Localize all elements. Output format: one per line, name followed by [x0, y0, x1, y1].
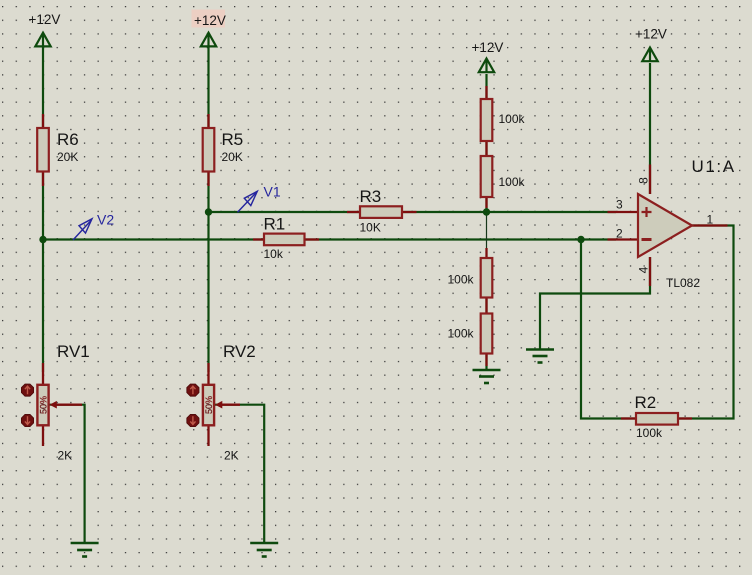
svg-text:3: 3	[616, 198, 623, 212]
resistor R6	[37, 128, 49, 172]
potentiometer RV2 down button	[187, 414, 199, 426]
svg-text:+12V: +12V	[472, 40, 504, 55]
power symbol +12V (second, R5 rail)	[201, 33, 216, 47]
svg-text:20K: 20K	[222, 150, 243, 164]
node dot: V2 net at R6/RV1 column	[39, 236, 46, 243]
wire: +12V rail down the 100k divider chain	[485, 74, 487, 212]
resistor R3	[360, 206, 402, 218]
resistor 100k (fourth)	[481, 314, 493, 354]
svg-text:R3: R3	[360, 187, 382, 206]
potentiometer RV1 up button	[21, 384, 33, 396]
svg-text:8: 8	[637, 177, 651, 184]
resistor 100k (top of chain)	[481, 99, 493, 141]
node dot: inverting input / feedback tee	[577, 236, 584, 243]
svg-text:+12V: +12V	[29, 12, 61, 27]
resistor R1	[264, 234, 305, 246]
wire: op-amp pin 4 to ground	[540, 257, 650, 349]
pin: 100k chain leads	[485, 86, 487, 366]
ground (100k chain bottom)	[473, 370, 501, 383]
pin: RV2 top lead	[207, 363, 209, 385]
resistor R2	[636, 413, 678, 425]
pin: RV2 bottom lead (unconnected)	[207, 426, 209, 447]
svg-text:V2: V2	[97, 212, 114, 228]
svg-text:100k: 100k	[448, 327, 475, 341]
pin: R3 leads	[347, 211, 417, 213]
svg-text:50%: 50%	[204, 396, 214, 414]
pin: RV1 bottom lead (unconnected)	[42, 426, 44, 447]
svg-text:100k: 100k	[499, 112, 526, 126]
ground (RV2 wiper)	[250, 543, 278, 557]
potentiometer RV2 wiper arrow	[215, 401, 222, 409]
node dot: divider mid-tap on V1 net	[483, 208, 490, 215]
pin: R1 leads	[253, 238, 319, 240]
pin: R2 leads	[621, 417, 692, 419]
pin: RV2 wiper lead	[222, 404, 241, 406]
svg-text:50%: 50%	[39, 396, 49, 414]
svg-text:R6: R6	[57, 130, 79, 149]
svg-text:10k: 10k	[264, 247, 284, 261]
potentiometer RV1 body	[37, 385, 48, 426]
wire: V1 net horizontal through R3 to op-amp pin 3	[209, 211, 617, 213]
voltage probe V2	[73, 219, 92, 240]
svg-text:R2: R2	[635, 393, 657, 412]
pin: op-amp pin 4 stub	[649, 257, 651, 286]
wire: divider lower half to ground	[485, 258, 487, 370]
ground (RV1 wiper)	[71, 543, 99, 557]
svg-text:100k: 100k	[499, 175, 526, 189]
svg-text:RV1: RV1	[57, 342, 90, 361]
svg-text:R5: R5	[222, 130, 244, 149]
selection highlight behind +12V label	[192, 10, 226, 28]
svg-text:1: 1	[707, 213, 714, 227]
svg-text:20K: 20K	[57, 150, 78, 164]
svg-text:R1: R1	[264, 215, 286, 234]
svg-text:2K: 2K	[58, 449, 73, 463]
op-amp U1:A	[638, 194, 692, 257]
voltage probe V1	[238, 191, 258, 212]
wire: op-amp output pin 1 to feedback R2 right	[678, 226, 734, 419]
potentiometer RV1 down button	[21, 414, 33, 426]
svg-text:2: 2	[616, 227, 623, 241]
resistor 100k (third)	[481, 258, 493, 298]
node dot: V1 net at R5/RV2 column	[205, 208, 212, 215]
svg-text:V1: V1	[264, 184, 281, 200]
pin: op-amp pin 8 stub	[649, 165, 651, 195]
pin: op-amp pin 1 stub	[692, 224, 728, 226]
power symbol +12V (right, op-amp pin 8)	[642, 48, 657, 62]
potentiometer RV2 body	[203, 385, 214, 426]
pin: R6 leads	[42, 114, 44, 186]
pin: RV1 top lead	[42, 363, 44, 385]
svg-text:+12V: +12V	[194, 13, 226, 28]
svg-text:100k: 100k	[636, 426, 663, 440]
svg-text:4: 4	[637, 266, 651, 273]
wire: V2 net horizontal to op-amp pin 2	[43, 238, 616, 240]
wire: +12V to op-amp pin 8	[649, 63, 651, 194]
svg-text:U1:A: U1:A	[692, 157, 736, 176]
svg-text:2K: 2K	[224, 449, 239, 463]
wire: RV2 wiper to ground	[215, 405, 265, 543]
pin: op-amp pin 3 stub	[608, 211, 639, 213]
wire: inverting node down to R2 left	[581, 240, 636, 419]
resistor R5	[203, 128, 215, 172]
pin: RV1 wiper lead	[56, 404, 82, 406]
power symbol +12V (left, R6 rail)	[35, 33, 50, 47]
svg-text:100k: 100k	[448, 273, 475, 287]
svg-text:+12V: +12V	[635, 27, 667, 42]
pin: R5 leads	[207, 114, 209, 186]
wire: RV1 wiper to ground	[50, 405, 85, 543]
wire: +12V rail down through R5 to node V1 and RV2	[207, 46, 209, 372]
resistor 100k (second)	[481, 156, 493, 197]
svg-text:RV2: RV2	[223, 342, 256, 361]
potentiometer RV1 wiper arrow	[50, 401, 57, 409]
potentiometer RV2 up button	[187, 384, 199, 396]
ground (op-amp pin 4)	[526, 350, 554, 363]
pin: op-amp pin 2 stub	[608, 238, 639, 240]
power symbol +12V (middle, 100k chain)	[479, 59, 494, 73]
svg-text:TL082: TL082	[666, 276, 700, 290]
wire: thin tap segment crossing the V2 net	[486, 212, 488, 249]
svg-text:10K: 10K	[360, 221, 381, 235]
wire: +12V rail down through R6 to node V2 and RV1	[42, 46, 44, 372]
